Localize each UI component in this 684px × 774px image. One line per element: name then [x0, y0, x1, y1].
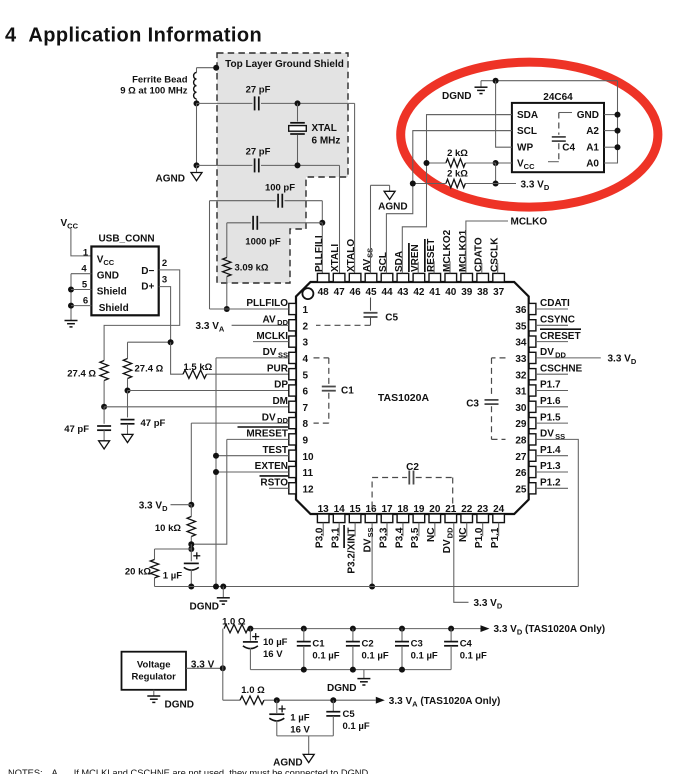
svg-text:AVSS: AVSS — [362, 248, 375, 272]
wire pin 18 bottom stub — [402, 523, 404, 537]
capacitor C4 0.1uF — [444, 642, 458, 646]
svg-text:MCLKI: MCLKI — [256, 331, 288, 342]
wire 3.09k top lead — [226, 223, 228, 258]
dashed C3 bottom — [492, 438, 506, 440]
junction 1uF rail — [188, 584, 194, 590]
svg-text:6 MHz: 6 MHz — [312, 136, 341, 147]
wire 1000pF row b — [260, 222, 323, 224]
svg-text:P1.6: P1.6 — [540, 396, 561, 407]
svg-text:VREN: VREN — [410, 244, 421, 272]
capacitor 47pF DP — [121, 420, 135, 424]
svg-text:Shield: Shield — [97, 287, 127, 298]
wire reg dgnd stem — [153, 690, 155, 696]
svg-text:12: 12 — [303, 484, 315, 495]
pin 41 overline — [424, 239, 426, 272]
svg-text:47 pF: 47 pF — [141, 418, 166, 429]
svg-text:C2: C2 — [362, 638, 374, 649]
pin stub 25 — [529, 483, 536, 494]
svg-text:44: 44 — [381, 287, 393, 298]
pin stub 3 — [289, 336, 296, 347]
svg-text:1 µF: 1 µF — [290, 712, 309, 723]
svg-text:TAS1020A: TAS1020A — [378, 392, 430, 404]
svg-text:P3.1: P3.1 — [330, 527, 341, 548]
wire pin 20 bottom stub — [434, 523, 436, 537]
svg-text:C4: C4 — [562, 143, 575, 154]
svg-text:9 Ω at 100 MHz: 9 Ω at 100 MHz — [120, 85, 188, 96]
svg-text:40: 40 — [445, 287, 457, 298]
svg-text:P3.2/XINT: P3.2/XINT — [346, 528, 357, 574]
pin stub 34 — [529, 336, 536, 347]
svg-text:Regulator: Regulator — [132, 671, 177, 682]
svg-text:27: 27 — [515, 452, 527, 463]
wire 20k branch — [155, 548, 192, 550]
svg-text:C2: C2 — [406, 462, 419, 473]
svg-text:NC: NC — [458, 528, 469, 542]
svg-text:SDA: SDA — [517, 110, 538, 121]
wire 10uF top lead — [249, 629, 251, 641]
wire 27.4DP top lead — [127, 342, 129, 358]
ground DGND regulator — [147, 696, 160, 702]
svg-text:16 V: 16 V — [263, 649, 283, 660]
svg-text:TEST: TEST — [262, 445, 288, 456]
plus sign 1uF reset — [193, 552, 200, 559]
wire eeprom gnd pin — [604, 114, 618, 116]
svg-text:42: 42 — [413, 287, 425, 298]
svg-text:C4: C4 — [460, 638, 473, 649]
wire ferrite top to shield — [197, 67, 217, 69]
junction test gnd — [213, 453, 219, 459]
svg-text:P1.1: P1.1 — [490, 527, 501, 548]
pin stub 20 — [429, 514, 441, 523]
svg-text:47: 47 — [334, 287, 346, 298]
svg-text:MRESET: MRESET — [246, 429, 288, 440]
red highlight ellipse around EEPROM — [401, 62, 658, 207]
svg-text:46: 46 — [350, 287, 362, 298]
capacitor 1uF reset — [184, 563, 199, 570]
svg-text:1: 1 — [83, 247, 89, 258]
wire pin37 csclk stub — [497, 263, 499, 273]
svg-text:24: 24 — [493, 504, 505, 515]
wire pin 31 stub — [536, 390, 568, 392]
junction 1uF B — [274, 697, 280, 703]
wire eeprom a1 pin — [604, 146, 618, 148]
capacitor 27pF upper — [255, 96, 259, 110]
pin stub 18 — [397, 514, 409, 523]
ground DGND eeprom — [475, 87, 488, 93]
svg-text:XTAL: XTAL — [312, 123, 337, 134]
svg-text:10 kΩ: 10 kΩ — [155, 523, 181, 534]
svg-text:SCL: SCL — [378, 252, 389, 272]
capacitor 10uF — [243, 642, 258, 649]
wire 3v3d stub — [496, 183, 516, 185]
wire mreset node to cap — [190, 544, 192, 561]
wire xtalo drop — [354, 103, 356, 273]
wire pin4 DVSS — [216, 357, 289, 359]
junction C5b top — [330, 697, 336, 703]
wire eeprom dgnd rail — [481, 80, 618, 82]
wire rowA — [248, 628, 481, 630]
svg-text:RESET: RESET — [426, 239, 437, 272]
pin stub 41 — [429, 273, 441, 282]
wire pin10 TEST — [216, 455, 289, 457]
wire pin 22 bottom stub — [466, 523, 468, 537]
svg-text:39: 39 — [461, 287, 473, 298]
wire 10k top lead — [190, 505, 192, 517]
junction C1 top — [301, 626, 307, 632]
wire DP cap lead — [127, 391, 129, 418]
svg-text:CDATO: CDATO — [474, 237, 485, 272]
pin stub 47 — [333, 273, 345, 282]
svg-text:A1: A1 — [586, 143, 599, 154]
svg-text:0.1 µF: 0.1 µF — [343, 721, 370, 732]
dashed C4 upper — [558, 113, 560, 135]
pin stub 23 — [477, 514, 489, 523]
junction vcc node — [493, 160, 499, 166]
svg-text:45: 45 — [365, 287, 377, 298]
svg-text:27 pF: 27 pF — [246, 84, 271, 95]
junction dgnd stem rail — [220, 584, 226, 590]
junction xtal row2 left — [194, 162, 200, 168]
svg-text:3.3 VD (TAS1020A Only): 3.3 VD (TAS1020A Only) — [494, 624, 606, 637]
svg-text:DGND: DGND — [165, 700, 194, 711]
dashed C5 to pin2 — [316, 324, 371, 326]
wire pin 24 bottom stub — [498, 523, 500, 537]
pin stub 42 — [413, 273, 425, 282]
svg-text:NC: NC — [426, 528, 437, 542]
USB connector box — [91, 247, 158, 316]
ferrite bead inductor L1 — [194, 73, 197, 99]
pin stub 45 — [365, 273, 377, 282]
wire row1 a — [197, 102, 253, 104]
wire pllfili drop — [321, 223, 323, 274]
plus sign 1uF B — [279, 705, 286, 712]
resistor 2k SDA pullup — [446, 159, 465, 167]
wire 10k bottom lead — [190, 537, 192, 545]
wire pin28 DVSS route — [536, 439, 578, 586]
dashed C1 left upper — [328, 358, 330, 385]
svg-text:NOTES:: NOTES: — [8, 768, 43, 774]
svg-text:41: 41 — [429, 287, 441, 298]
top layer ground shield region — [217, 53, 348, 283]
svg-text:VCC: VCC — [61, 218, 79, 231]
svg-text:29: 29 — [515, 419, 527, 430]
wire C3 top lead — [401, 629, 403, 642]
wire xtali drop — [339, 165, 341, 273]
svg-text:EXTEN: EXTEN — [255, 461, 288, 472]
wire pur to pin5 — [207, 373, 289, 375]
junction wp gnd tap — [493, 78, 499, 84]
IC TAS1020A body — [296, 282, 529, 514]
pin stub 39 — [461, 273, 473, 282]
wire usb gnd — [71, 273, 91, 275]
svg-text:37: 37 — [493, 287, 505, 298]
wire main dgnd rail — [155, 586, 579, 588]
svg-text:XTALI: XTALI — [330, 244, 341, 272]
wire vcc drop — [495, 163, 497, 184]
svg-text:13: 13 — [318, 504, 330, 515]
ground DGND caps — [357, 679, 370, 685]
svg-text:26: 26 — [515, 468, 527, 479]
junction dvss vert rail — [213, 584, 219, 590]
pin stub 26 — [529, 466, 536, 477]
wire dgnd A stem — [363, 670, 365, 679]
wire pin 34 stub — [536, 341, 568, 343]
svg-text:24C64: 24C64 — [543, 92, 573, 103]
svg-text:10 µF: 10 µF — [263, 637, 288, 648]
pin 42 overline — [408, 243, 410, 272]
wire dvdd drop — [190, 423, 192, 505]
svg-text:AGND: AGND — [156, 174, 185, 185]
resistor 2k SCL pullup — [446, 179, 465, 187]
EEPROM 24C64 box U2 — [512, 103, 604, 172]
svg-text:DVSS: DVSS — [362, 528, 375, 553]
arrow 3.3VD — [481, 625, 490, 632]
wire 27.4DM to DM row — [103, 381, 105, 407]
svg-text:1: 1 — [303, 305, 309, 316]
wire crystal top lead — [297, 103, 299, 121]
wire 3v3d row b — [413, 183, 446, 185]
wire C5 top lead — [370, 298, 372, 311]
junction pllfili node — [319, 220, 325, 226]
svg-text:7: 7 — [303, 403, 309, 414]
svg-text:35: 35 — [515, 321, 527, 332]
wire pin41 reset stub — [433, 261, 435, 273]
svg-text:A0: A0 — [586, 158, 599, 169]
svg-text:DVSS: DVSS — [540, 429, 565, 442]
svg-text:3.3 VD: 3.3 VD — [474, 598, 503, 611]
svg-text:4: 4 — [81, 264, 87, 275]
junction xtal row1 left — [194, 100, 200, 106]
wire C4 top lead — [450, 629, 452, 642]
capacitor C5 0.1uF — [326, 712, 340, 716]
wire pin 29 stub — [536, 422, 568, 424]
wire C4 bottom lead — [450, 646, 452, 670]
resistor 3.09k — [223, 258, 231, 277]
svg-text:CSYNC: CSYNC — [540, 315, 575, 326]
wire vcc row a — [496, 162, 512, 164]
pin stub 15 — [349, 514, 361, 523]
resistor 1.0 B — [240, 696, 264, 704]
svg-text:28: 28 — [515, 436, 527, 447]
wire 100pF to node — [321, 201, 323, 223]
wire DM cap lead — [103, 407, 105, 424]
svg-text:1000 pF: 1000 pF — [245, 237, 281, 248]
junction dvdd 3v3d tap — [188, 502, 194, 508]
pin stub 11 — [289, 466, 296, 477]
wire DM row — [104, 406, 289, 408]
svg-text:D+: D+ — [141, 282, 154, 293]
capacitor 100pF — [278, 194, 282, 208]
wire vcc to usb pin1 — [71, 229, 92, 256]
svg-text:23: 23 — [477, 504, 489, 515]
wire ferrite bottom — [196, 99, 198, 104]
svg-text:DVDD: DVDD — [442, 527, 455, 553]
svg-text:33: 33 — [515, 354, 527, 365]
svg-text:0.1 µF: 0.1 µF — [460, 651, 487, 662]
crystal XTAL 6MHz — [289, 123, 307, 134]
svg-text:PLLFILI: PLLFILI — [314, 235, 325, 272]
svg-text:5: 5 — [82, 279, 88, 290]
wire usb shield5 — [71, 289, 91, 291]
wire dgnd stem — [222, 587, 224, 598]
pin stub 7 — [289, 401, 296, 412]
ground AGND DP — [122, 434, 133, 442]
svg-text:1.0 Ω: 1.0 Ω — [241, 685, 265, 696]
wire 1uF B top lead — [276, 700, 278, 713]
svg-text:P3.5: P3.5 — [410, 527, 421, 548]
svg-text:Ferrite Bead: Ferrite Bead — [132, 74, 188, 85]
resistor 27.4 DP — [123, 359, 131, 379]
wire pin45 avss up — [370, 185, 372, 273]
wire C2 top lead — [352, 629, 354, 642]
pin 34 overline — [540, 328, 581, 330]
wire pin12 RSTO stub — [269, 487, 289, 489]
svg-text:WP: WP — [517, 143, 533, 154]
junction C3 bottom — [399, 667, 405, 673]
svg-text:20 kΩ: 20 kΩ — [125, 567, 151, 578]
resistor 1.0 A — [224, 624, 248, 632]
pin stub 27 — [529, 450, 536, 461]
pin stub 31 — [529, 385, 536, 396]
pin stub 28 — [529, 434, 536, 445]
svg-text:8: 8 — [303, 419, 309, 430]
junction DM node — [101, 404, 107, 410]
svg-text:P1.0: P1.0 — [474, 527, 485, 548]
pin stub 48 — [317, 273, 329, 282]
capacitor C5 — [364, 313, 378, 317]
pin stub 24 — [493, 514, 505, 523]
wire C5 bottom lead — [370, 317, 372, 325]
svg-text:SCL: SCL — [517, 126, 537, 137]
svg-text:0.1 µF: 0.1 µF — [312, 651, 339, 662]
junction xtal bottom — [295, 162, 301, 168]
svg-text:DGND: DGND — [190, 602, 219, 613]
junction C2 top — [350, 626, 356, 632]
wire 27.4DP to DP row — [127, 379, 129, 391]
wire C5b bottom lead — [332, 716, 334, 736]
svg-text:16 V: 16 V — [290, 724, 310, 735]
svg-text:RSTO: RSTO — [260, 478, 288, 489]
capacitor C2 0.1uF — [346, 642, 360, 646]
wire pin 26 stub — [536, 471, 568, 473]
ground AGND avss — [384, 191, 395, 199]
svg-text:AGND: AGND — [273, 757, 302, 768]
dashed C2 top right — [416, 477, 453, 479]
svg-text:P3.0: P3.0 — [315, 527, 326, 548]
junction sda pullup — [424, 160, 430, 166]
svg-text:0.1 µF: 0.1 µF — [411, 651, 438, 662]
dashed C2 left — [371, 478, 373, 508]
wire D+ route — [128, 287, 171, 343]
svg-text:22: 22 — [461, 504, 473, 515]
wire row2 a — [197, 164, 253, 166]
wire pin11 EXTEN — [216, 471, 289, 473]
svg-text:DVDD: DVDD — [540, 347, 567, 360]
svg-text:14: 14 — [334, 504, 346, 515]
svg-text:21: 21 — [445, 504, 457, 515]
svg-text:1.5 kΩ: 1.5 kΩ — [184, 362, 213, 373]
pin stub 12 — [289, 483, 296, 494]
ground DGND main — [217, 598, 230, 604]
junction C1 bottom — [301, 667, 307, 673]
svg-text:P1.7: P1.7 — [540, 380, 561, 391]
dashed C2 right — [452, 478, 454, 508]
wire pin1 PLLFILO row — [210, 308, 289, 310]
resistor 20k — [150, 560, 158, 578]
wire usb shield bus — [70, 274, 72, 321]
junction shield6 — [68, 303, 74, 309]
wire row2 b — [261, 164, 340, 166]
svg-text:3.3 VD: 3.3 VD — [139, 501, 168, 514]
dashed C3 right upper — [491, 358, 493, 398]
wire 3.09k bottom lead — [226, 277, 228, 310]
svg-text:SDA: SDA — [394, 251, 405, 272]
wire 1000pF row a — [227, 222, 251, 224]
pin stub 2 — [289, 320, 296, 331]
junction shield5 — [68, 287, 74, 293]
svg-text:34: 34 — [515, 338, 527, 349]
pin stub 22 — [461, 514, 473, 523]
svg-text:GND: GND — [97, 271, 119, 282]
wire pin 25 stub — [536, 487, 568, 489]
svg-text:10: 10 — [303, 452, 315, 463]
svg-text:2: 2 — [162, 258, 167, 269]
wire usb shield6 — [71, 305, 91, 307]
svg-text:CDATI: CDATI — [540, 298, 570, 309]
wire 3v3d row a — [465, 183, 495, 185]
wire 1uF bottom lead — [190, 570, 192, 587]
svg-text:AVDD: AVDD — [263, 315, 289, 328]
wire rowB — [264, 699, 376, 701]
wire reg vertical — [222, 629, 224, 701]
pin stub 19 — [413, 514, 425, 523]
svg-text:C3: C3 — [466, 398, 479, 409]
svg-text:48: 48 — [318, 287, 330, 298]
pin stub 29 — [529, 418, 536, 429]
svg-text:GND: GND — [577, 110, 599, 121]
svg-text:C1: C1 — [312, 638, 325, 649]
wire C2 bottom lead — [352, 646, 354, 670]
wire 20k top lead — [154, 549, 156, 560]
junction pur tap — [168, 339, 174, 345]
wire pin16 dvss drop — [371, 523, 373, 587]
wire 1uF B bottom lead — [276, 720, 278, 736]
svg-text:19: 19 — [413, 504, 425, 515]
capacitor C2 — [409, 471, 413, 485]
resistor 1.5k — [183, 370, 207, 378]
junction pllfilo node — [224, 306, 230, 312]
wire eeprom dgnd stem — [480, 81, 482, 88]
pin1 indicator circle — [302, 288, 313, 299]
pin stub 38 — [477, 273, 489, 282]
svg-text:DGND: DGND — [327, 683, 356, 694]
svg-text:36: 36 — [515, 305, 527, 316]
wire pin3 MCLKI stub — [253, 341, 289, 343]
dashed C1 bottom — [314, 422, 329, 424]
svg-text:P1.3: P1.3 — [540, 461, 561, 472]
wire pin43 sda route — [402, 115, 513, 274]
dashed C1 top — [314, 357, 329, 359]
wire pin9 MRESET — [227, 438, 289, 440]
wire crystal bottom lead — [297, 135, 299, 166]
dashed C3 top — [492, 357, 506, 359]
capacitor C3 0.1uF — [395, 642, 409, 646]
pin stub 32 — [529, 369, 536, 380]
pin 15 overline — [343, 525, 345, 548]
pin stub 5 — [289, 369, 296, 380]
wire agnd drop upper — [196, 103, 198, 165]
svg-text:CRESET: CRESET — [540, 331, 581, 342]
